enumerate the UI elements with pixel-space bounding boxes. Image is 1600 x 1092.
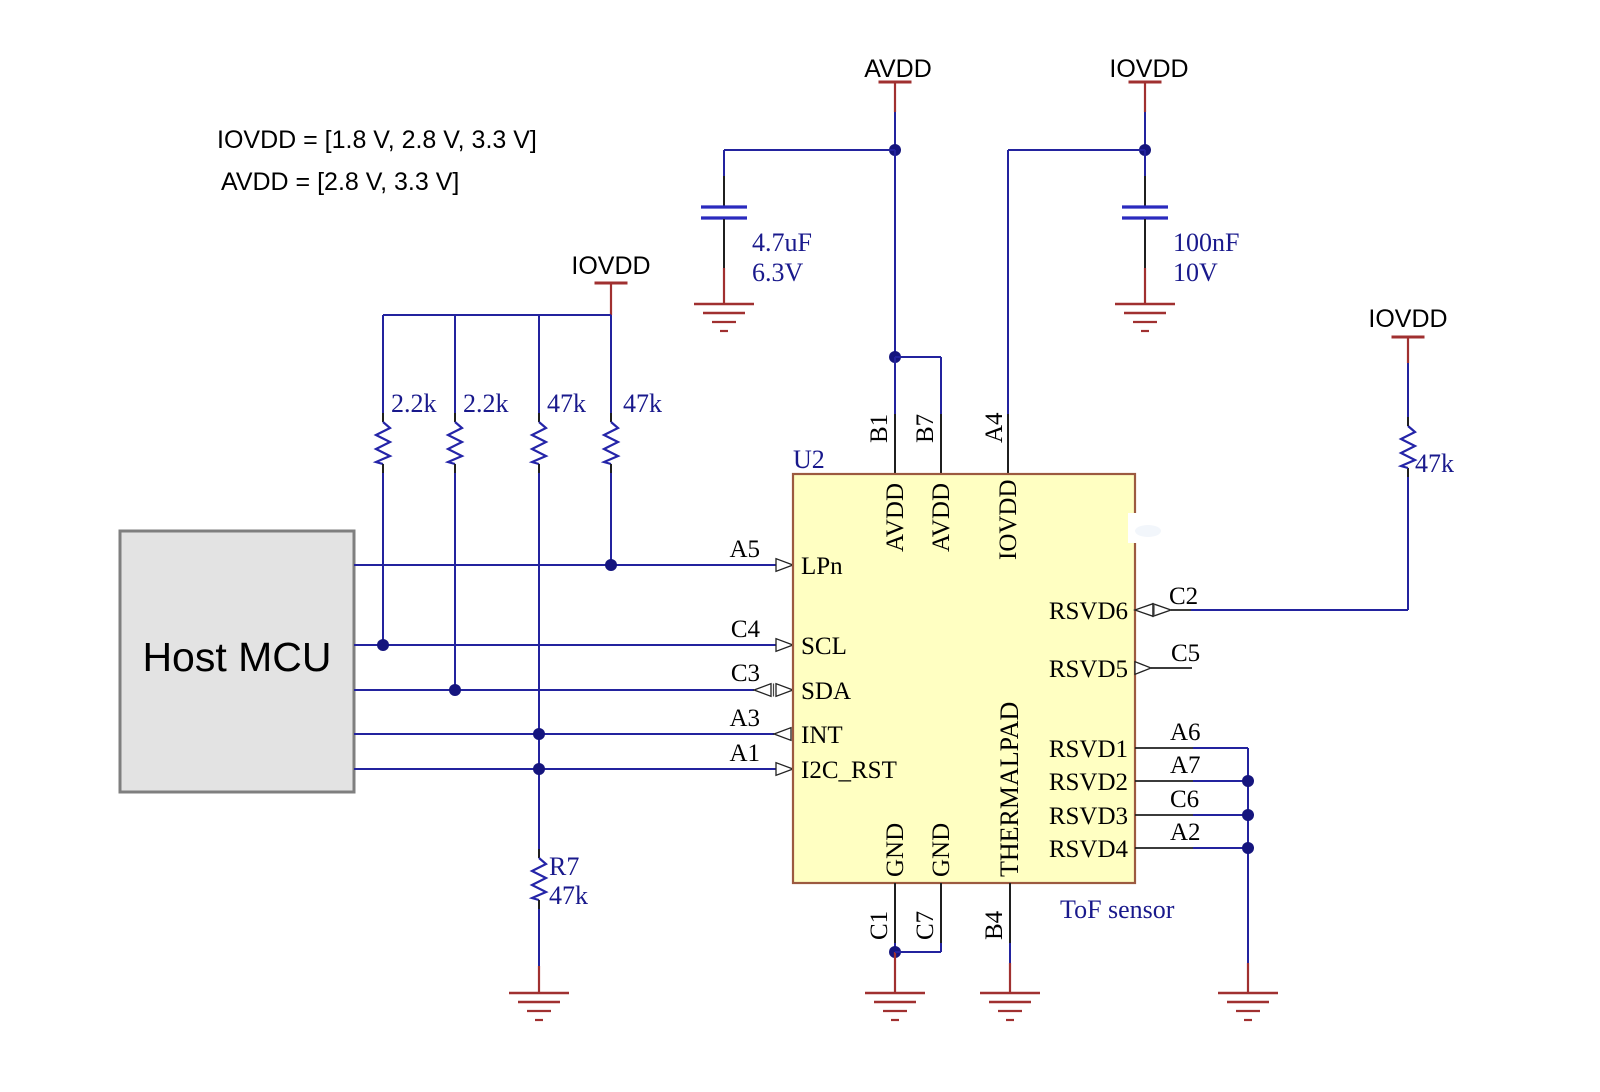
svg-text:ToF sensor: ToF sensor xyxy=(1060,895,1175,924)
pin name LPn xyxy=(801,553,843,580)
svg-text:RSVD6: RSVD6 xyxy=(1049,598,1128,625)
svg-text:2.2k: 2.2k xyxy=(463,389,509,418)
wire R pullup 1 top xyxy=(382,315,384,422)
svg-text:4.7uF: 4.7uF xyxy=(752,228,812,257)
svg-text:C3: C3 xyxy=(731,660,760,687)
pin arrow INT output xyxy=(774,728,791,741)
label 2.2k SCL xyxy=(391,389,437,418)
svg-text:47k: 47k xyxy=(549,881,588,910)
pin arrow LPn input xyxy=(776,559,793,572)
svg-text:A4: A4 xyxy=(981,412,1008,443)
pin name RSVD2 xyxy=(1049,769,1128,796)
wire SCL net xyxy=(354,644,776,646)
wire 100nF cap top lead xyxy=(1144,150,1146,206)
pin name RSVD5 xyxy=(1049,656,1128,683)
pin RSVD5 stub xyxy=(1135,662,1192,675)
capacitor C 100nF xyxy=(1122,207,1168,218)
svg-text:47k: 47k xyxy=(1415,449,1454,478)
node RSVD2 junction xyxy=(1242,775,1254,787)
refdes U2 xyxy=(793,445,825,474)
wire R pullup 4 bottom xyxy=(610,464,612,565)
pin name RSVD3 xyxy=(1049,803,1128,830)
svg-text:RSVD3: RSVD3 xyxy=(1049,803,1128,830)
wire AVDD to C1 cap xyxy=(724,149,895,151)
node AVDD junction xyxy=(889,144,901,156)
svg-text:AVDD: AVDD xyxy=(864,55,932,83)
node LPn pullup junction xyxy=(605,559,617,571)
wire R pullup RSVD6 top xyxy=(1407,363,1409,426)
wire RSVD2 net xyxy=(1135,780,1248,782)
pin name THERMALPAD xyxy=(995,702,1024,877)
svg-text:IOVDD: IOVDD xyxy=(1109,55,1188,83)
pin arrow SDA bidir xyxy=(754,684,793,697)
ground under GND pins xyxy=(865,993,925,1020)
svg-text:RSVD1: RSVD1 xyxy=(1049,736,1128,763)
svg-text:LPn: LPn xyxy=(801,553,843,580)
wire RSVD1 net xyxy=(1135,748,1248,963)
wire pin B7 xyxy=(895,357,941,474)
pin number B7 xyxy=(912,414,939,443)
svg-text:A2: A2 xyxy=(1170,819,1201,846)
svg-text:RSVD4: RSVD4 xyxy=(1049,836,1129,863)
svg-text:INT: INT xyxy=(801,722,843,749)
wire 100nF cap bottom lead xyxy=(1144,219,1146,304)
wire IOVDD to pin A4 xyxy=(1008,150,1145,474)
Host MCU box xyxy=(120,531,354,792)
pin number C1 xyxy=(866,911,893,940)
pin number A6 xyxy=(1170,719,1201,746)
power IOVDD right xyxy=(1368,305,1447,363)
ground right xyxy=(1218,993,1278,1020)
svg-text:AVDD = [2.8 V, 3.3 V]: AVDD = [2.8 V, 3.3 V] xyxy=(221,168,459,196)
pin name IOVDD A4 xyxy=(995,479,1022,560)
label R7 47k xyxy=(549,881,588,910)
svg-text:C7: C7 xyxy=(912,911,939,940)
pin name AVDD B1 xyxy=(882,483,909,552)
svg-text:47k: 47k xyxy=(623,389,662,418)
pin number B1 xyxy=(866,414,893,443)
svg-text:100nF: 100nF xyxy=(1173,228,1239,257)
svg-text:6.3V: 6.3V xyxy=(752,258,804,287)
svg-text:10V: 10V xyxy=(1173,258,1218,287)
node RSVD4 junction xyxy=(1242,842,1254,854)
pin number A1 xyxy=(729,740,760,767)
node AVDD branch junction xyxy=(889,351,901,363)
svg-text:SDA: SDA xyxy=(801,678,851,705)
svg-text:A5: A5 xyxy=(729,536,760,563)
svg-text:IOVDD: IOVDD xyxy=(1368,305,1447,333)
node SCL pullup junction xyxy=(377,639,389,651)
wire RSVD3 net xyxy=(1135,814,1248,816)
wire 4.7uF cap bottom lead xyxy=(723,219,725,304)
ground under THERMALPAD xyxy=(980,993,1040,1020)
svg-text:Host MCU: Host MCU xyxy=(142,634,331,680)
IC U2 body xyxy=(793,474,1135,883)
pin name GND C7 xyxy=(928,823,955,877)
wire R pullup 3 bottom xyxy=(538,464,540,769)
resistor 2.2k (SCL pullup) xyxy=(376,422,390,464)
label 100nF 10V xyxy=(1173,228,1239,287)
pin number A2 xyxy=(1170,819,1201,846)
wire INT net xyxy=(354,733,774,735)
svg-text:47k: 47k xyxy=(547,389,586,418)
node INT pullup junction xyxy=(533,728,545,740)
pin name RSVD4 xyxy=(1049,836,1129,863)
capacitor C 4.7uF xyxy=(701,207,747,218)
power AVDD xyxy=(864,55,932,112)
node SDA pullup junction xyxy=(449,684,461,696)
wire RSVD4 net xyxy=(1135,847,1248,849)
pin number C4 xyxy=(731,616,761,643)
svg-text:C6: C6 xyxy=(1170,786,1199,813)
label 2.2k SDA xyxy=(463,389,509,418)
svg-text:B4: B4 xyxy=(981,910,1008,940)
pin number A5 xyxy=(729,536,760,563)
svg-text:A1: A1 xyxy=(729,740,760,767)
svg-text:I2C_RST: I2C_RST xyxy=(801,757,897,784)
power IOVDD top xyxy=(1109,55,1188,112)
wire THERMALPAD pin xyxy=(1009,883,1011,993)
pin number C5 xyxy=(1171,640,1200,667)
node IOVDD junction xyxy=(1139,144,1151,156)
svg-text:B7: B7 xyxy=(912,414,939,443)
note AVDD voltages xyxy=(221,168,459,196)
note IOVDD voltages xyxy=(217,126,537,154)
pin name GND C1 xyxy=(882,823,909,877)
pin number C2 xyxy=(1169,583,1198,610)
wire LPn net xyxy=(354,564,776,566)
svg-text:U2: U2 xyxy=(793,445,825,474)
wire IOVDD vertical to node xyxy=(1144,112,1146,150)
node GND junction xyxy=(889,946,901,958)
svg-text:C4: C4 xyxy=(731,616,761,643)
resistor 47k (INT pullup) xyxy=(532,422,546,464)
pin name RSVD1 xyxy=(1049,736,1128,763)
pin arrow RSVD6 bidir xyxy=(1135,604,1171,617)
label 4.7uF 6.3V xyxy=(752,228,812,287)
label R7 xyxy=(549,852,579,881)
pin number A3 xyxy=(729,705,760,732)
pin name INT xyxy=(801,722,843,749)
label ToF sensor xyxy=(1060,895,1175,924)
svg-text:RSVD2: RSVD2 xyxy=(1049,769,1128,796)
resistor 47k (LPn pullup) xyxy=(604,422,618,464)
wire SDA net xyxy=(354,689,754,691)
wire R pullup 2 bottom xyxy=(454,464,456,690)
svg-text:SCL: SCL xyxy=(801,633,847,660)
pin arrow SCL input xyxy=(776,639,793,652)
wire 4.7uF cap top lead xyxy=(723,150,725,206)
wire GND C1 pin xyxy=(894,883,896,952)
resistor 47k (RSVD6 pullup) xyxy=(1401,426,1415,468)
wire R pullup 3 top xyxy=(538,315,540,422)
wire IOVDD bus xyxy=(383,314,611,316)
svg-text:C5: C5 xyxy=(1171,640,1200,667)
label 47k INT xyxy=(547,389,586,418)
svg-text:GND: GND xyxy=(928,823,955,877)
node I2C_RST junction xyxy=(533,763,545,775)
svg-text:C2: C2 xyxy=(1169,583,1198,610)
pin name RSVD6 xyxy=(1049,598,1128,625)
border artifact xyxy=(1128,513,1161,543)
wire R pullup 4 top xyxy=(610,315,612,422)
svg-text:AVDD: AVDD xyxy=(928,483,955,552)
ground under 4.7uF cap xyxy=(694,304,754,331)
ground under 100nF cap xyxy=(1115,304,1175,331)
svg-text:A7: A7 xyxy=(1170,752,1201,779)
svg-text:C1: C1 xyxy=(866,911,893,940)
svg-text:GND: GND xyxy=(882,823,909,877)
pin arrow I2C_RST input xyxy=(776,763,793,776)
ground under R7 xyxy=(509,993,569,1020)
pin number A4 xyxy=(981,412,1008,443)
svg-text:AVDD: AVDD xyxy=(882,483,909,552)
pin number C7 xyxy=(912,911,939,940)
pin number A7 xyxy=(1170,752,1201,779)
svg-text:2.2k: 2.2k xyxy=(391,389,437,418)
svg-text:IOVDD: IOVDD xyxy=(995,479,1022,560)
wire RSVD6 net xyxy=(1171,477,1408,610)
wire R pullup 2 top xyxy=(454,315,456,422)
pin name I2C_RST xyxy=(801,757,897,784)
svg-text:IOVDD = [1.8 V, 2.8 V, 3.3 V]: IOVDD = [1.8 V, 2.8 V, 3.3 V] xyxy=(217,126,537,154)
wire R pullup 1 bottom xyxy=(382,464,384,645)
pin name SCL xyxy=(801,633,847,660)
wire GND C1 to ground xyxy=(894,952,896,993)
svg-text:B1: B1 xyxy=(866,414,893,443)
node RSVD3 junction xyxy=(1242,809,1254,821)
svg-text:A3: A3 xyxy=(729,705,760,732)
pin name SDA xyxy=(801,678,851,705)
wire pin B1 xyxy=(894,357,896,474)
wire R7 top xyxy=(538,769,540,858)
pin name AVDD B7 xyxy=(928,483,955,552)
wire GND C7 pin xyxy=(895,883,941,952)
pin number B4 xyxy=(981,910,1008,940)
wire AVDD vertical to node xyxy=(894,112,896,150)
wire RSVD bus to ground xyxy=(1247,963,1249,993)
wire R7 bottom xyxy=(538,900,540,993)
svg-text:THERMALPAD: THERMALPAD xyxy=(995,702,1024,877)
svg-text:R7: R7 xyxy=(549,852,579,881)
resistor R7 xyxy=(532,858,546,900)
pin number C3 xyxy=(731,660,760,687)
svg-text:IOVDD: IOVDD xyxy=(571,252,650,280)
svg-text:A6: A6 xyxy=(1170,719,1201,746)
wire AVDD down to branch xyxy=(894,150,896,357)
svg-text:RSVD5: RSVD5 xyxy=(1049,656,1128,683)
label 47k RSVD6 xyxy=(1415,449,1454,478)
wire I2C_RST net xyxy=(354,768,776,770)
wire R pullup RSVD6 bottom xyxy=(1407,468,1409,477)
power IOVDD left xyxy=(571,252,650,315)
resistor 2.2k (SDA pullup) xyxy=(448,422,462,464)
pin number C6 xyxy=(1170,786,1199,813)
label 47k LPn xyxy=(623,389,662,418)
